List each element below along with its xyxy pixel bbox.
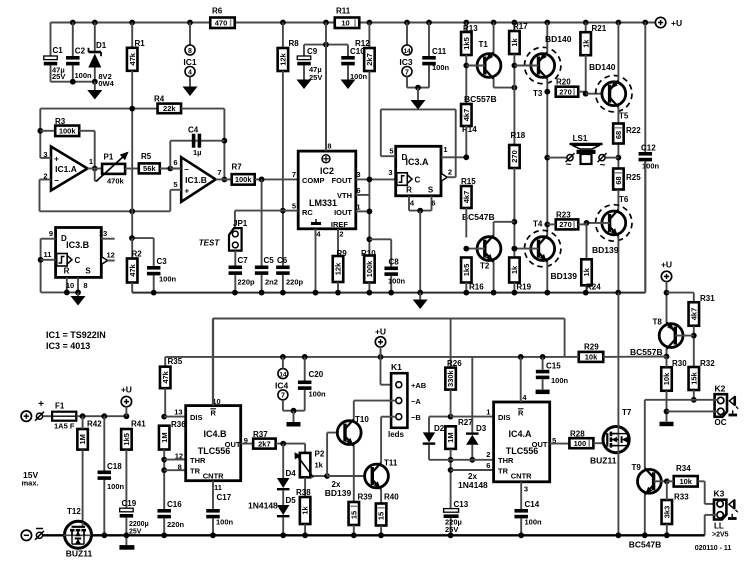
svg-text:C6: C6 xyxy=(277,256,288,265)
svg-text:S: S xyxy=(85,267,91,276)
svg-text:1: 1 xyxy=(443,145,447,154)
svg-text:R15: R15 xyxy=(461,177,476,186)
svg-text:1k: 1k xyxy=(581,39,590,48)
svg-text:C13: C13 xyxy=(454,500,469,509)
svg-text:R11: R11 xyxy=(336,7,351,16)
svg-text:+: + xyxy=(184,187,189,196)
svg-text:R25: R25 xyxy=(626,173,641,182)
svg-text:THR: THR xyxy=(190,456,206,465)
svg-text:TR: TR xyxy=(498,467,509,476)
svg-text:5: 5 xyxy=(173,180,177,189)
svg-text:S: S xyxy=(428,185,434,194)
svg-text:R10: R10 xyxy=(361,249,376,258)
svg-text:5: 5 xyxy=(389,147,393,156)
svg-text:P1: P1 xyxy=(104,153,114,162)
svg-text:FOUT: FOUT xyxy=(332,176,353,185)
svg-text:OUT: OUT xyxy=(225,440,241,449)
svg-text:+U: +U xyxy=(375,327,386,337)
svg-text:T8: T8 xyxy=(653,318,663,327)
svg-text:IC4.B: IC4.B xyxy=(203,429,227,439)
svg-text:470: 470 xyxy=(215,19,228,28)
svg-text:R34: R34 xyxy=(676,464,691,473)
svg-text:3: 3 xyxy=(43,150,47,159)
svg-text:TEST: TEST xyxy=(199,239,221,248)
svg-text:+: + xyxy=(54,155,59,164)
svg-text:1k: 1k xyxy=(315,461,324,470)
svg-text:C: C xyxy=(415,175,421,184)
svg-text:IC3.B: IC3.B xyxy=(66,240,90,250)
svg-text:12: 12 xyxy=(175,452,183,461)
svg-text:R23: R23 xyxy=(556,211,571,220)
svg-text:TR: TR xyxy=(190,467,201,476)
svg-text:R9: R9 xyxy=(337,249,348,258)
svg-text:8: 8 xyxy=(327,142,331,151)
svg-text:BD139: BD139 xyxy=(325,488,352,498)
svg-text:leds: leds xyxy=(388,430,405,439)
svg-text:7: 7 xyxy=(405,69,409,76)
svg-text:10k: 10k xyxy=(585,353,598,362)
svg-text:R5: R5 xyxy=(141,152,152,161)
svg-text:R2: R2 xyxy=(132,250,143,259)
svg-text:12: 12 xyxy=(107,251,115,260)
svg-text:BUZ11: BUZ11 xyxy=(66,549,93,559)
svg-text:25V: 25V xyxy=(445,525,458,534)
svg-text:P2: P2 xyxy=(315,450,325,459)
svg-text:R30: R30 xyxy=(672,359,687,368)
svg-text:6: 6 xyxy=(173,158,177,167)
svg-text:8: 8 xyxy=(188,48,192,55)
svg-text:CNTR: CNTR xyxy=(203,472,224,481)
svg-text:8: 8 xyxy=(83,281,87,290)
svg-text:~: ~ xyxy=(600,160,606,171)
svg-text:BC557B: BC557B xyxy=(630,347,663,357)
svg-text:4k7: 4k7 xyxy=(462,109,471,122)
svg-text:1N4148: 1N4148 xyxy=(458,480,488,490)
svg-text:270: 270 xyxy=(559,220,572,229)
svg-text:2200µ: 2200µ xyxy=(129,521,149,528)
svg-text:4k7: 4k7 xyxy=(689,308,698,321)
svg-text:68: 68 xyxy=(614,131,623,139)
svg-text:R: R xyxy=(406,185,412,194)
svg-text:DIS: DIS xyxy=(190,413,203,422)
svg-text:IC2: IC2 xyxy=(320,166,334,176)
svg-text:T7: T7 xyxy=(622,408,632,417)
svg-text:T11: T11 xyxy=(384,459,398,468)
svg-text:0W4: 0W4 xyxy=(98,79,114,88)
svg-text:2: 2 xyxy=(486,450,490,459)
svg-text:COMP: COMP xyxy=(302,176,325,185)
svg-text:270: 270 xyxy=(510,150,519,163)
svg-text:R35: R35 xyxy=(168,357,183,366)
svg-text:T10: T10 xyxy=(355,415,369,424)
svg-text:100k: 100k xyxy=(365,260,374,278)
svg-text:R33: R33 xyxy=(674,493,689,502)
svg-text:C1: C1 xyxy=(53,46,64,55)
svg-text:15: 15 xyxy=(349,511,358,519)
svg-text:R22: R22 xyxy=(626,126,641,135)
svg-text:22k: 22k xyxy=(163,104,176,113)
svg-text:T6: T6 xyxy=(619,195,629,204)
svg-text:C8: C8 xyxy=(389,258,400,267)
svg-text:DIS: DIS xyxy=(498,413,511,422)
svg-text:CNTR: CNTR xyxy=(511,472,532,481)
svg-text:8: 8 xyxy=(178,463,182,472)
svg-text:R32: R32 xyxy=(700,359,715,368)
svg-text:C19: C19 xyxy=(122,499,137,508)
svg-text:R36: R36 xyxy=(171,420,186,429)
svg-text:C14: C14 xyxy=(525,500,540,509)
svg-text:R31: R31 xyxy=(700,294,715,303)
svg-text:T2: T2 xyxy=(480,262,490,271)
svg-text:270: 270 xyxy=(559,88,572,97)
svg-text:OC: OC xyxy=(715,418,727,427)
svg-text:9: 9 xyxy=(49,229,53,238)
svg-text:R16: R16 xyxy=(469,283,484,292)
svg-text:100n: 100n xyxy=(216,518,234,527)
svg-text:220p: 220p xyxy=(286,278,304,287)
svg-text:100n: 100n xyxy=(159,275,177,284)
svg-text:100n: 100n xyxy=(107,482,125,491)
svg-text:BC557B: BC557B xyxy=(464,94,497,104)
svg-text:7: 7 xyxy=(292,170,296,179)
svg-text:1N4148: 1N4148 xyxy=(248,501,278,511)
svg-text:100n: 100n xyxy=(388,277,406,286)
svg-text:BD140: BD140 xyxy=(589,62,616,72)
svg-text:IC1.A: IC1.A xyxy=(55,164,77,174)
svg-text:T5: T5 xyxy=(619,112,629,121)
svg-text:IC1 = TS922IN: IC1 = TS922IN xyxy=(46,330,106,340)
svg-text:25V: 25V xyxy=(52,72,65,81)
svg-text:C18: C18 xyxy=(107,462,122,471)
svg-text:~: ~ xyxy=(566,160,572,171)
svg-text:−: − xyxy=(54,176,59,185)
svg-text:THR: THR xyxy=(498,456,514,465)
svg-text:VTH: VTH xyxy=(337,191,352,200)
svg-text:2k7: 2k7 xyxy=(258,439,271,448)
svg-text:6: 6 xyxy=(431,199,435,208)
svg-text:12k: 12k xyxy=(334,262,343,275)
svg-text:330k: 330k xyxy=(446,369,455,387)
svg-text:10k: 10k xyxy=(662,372,671,385)
svg-text:C3: C3 xyxy=(157,257,168,266)
svg-text:R8: R8 xyxy=(289,39,300,48)
svg-text:56k: 56k xyxy=(143,164,156,173)
svg-text:BUZ11: BUZ11 xyxy=(590,456,617,466)
svg-text:12k: 12k xyxy=(279,52,288,65)
svg-text:2k7: 2k7 xyxy=(365,53,374,66)
svg-text:+: + xyxy=(38,399,44,410)
svg-text:100n: 100n xyxy=(75,71,93,80)
svg-text:D1: D1 xyxy=(96,41,107,50)
svg-text:2: 2 xyxy=(448,168,452,177)
svg-text:R40: R40 xyxy=(384,493,399,502)
svg-text:3: 3 xyxy=(356,170,360,179)
svg-text:R17: R17 xyxy=(513,22,528,31)
svg-text:R28: R28 xyxy=(570,430,585,439)
svg-text:15: 15 xyxy=(377,512,386,520)
svg-text:1k: 1k xyxy=(510,38,519,47)
svg-text:1k5: 1k5 xyxy=(462,264,471,277)
svg-text:1A5 F: 1A5 F xyxy=(54,422,75,431)
svg-text:+U: +U xyxy=(671,18,682,28)
svg-text:7: 7 xyxy=(217,168,221,177)
svg-text:1M: 1M xyxy=(446,432,455,442)
svg-text:R19: R19 xyxy=(516,283,531,292)
svg-text:C9: C9 xyxy=(307,47,318,56)
svg-text:IREF: IREF xyxy=(331,220,349,229)
svg-text:JP1: JP1 xyxy=(233,219,248,228)
svg-text:R24: R24 xyxy=(586,283,601,292)
svg-text:T12: T12 xyxy=(67,507,81,516)
svg-text:2: 2 xyxy=(339,230,343,239)
svg-text:020110 - 11: 020110 - 11 xyxy=(695,545,732,552)
svg-text:1k: 1k xyxy=(582,267,591,276)
svg-text:R42: R42 xyxy=(87,420,102,429)
svg-text:C5: C5 xyxy=(264,256,275,265)
svg-text:7: 7 xyxy=(281,393,285,400)
svg-text:IC1.B: IC1.B xyxy=(185,175,207,185)
svg-text:R6: R6 xyxy=(212,7,223,16)
svg-text:R26: R26 xyxy=(447,359,462,368)
svg-text:220p: 220p xyxy=(238,278,256,287)
svg-text:LM331: LM331 xyxy=(309,198,337,208)
svg-text:C4: C4 xyxy=(188,126,199,135)
svg-text:>2V5: >2V5 xyxy=(712,532,729,539)
svg-text:100: 100 xyxy=(574,439,587,448)
svg-text:13: 13 xyxy=(174,408,182,417)
svg-text:15k: 15k xyxy=(689,371,698,384)
svg-text:C12: C12 xyxy=(641,144,656,153)
svg-text:R14: R14 xyxy=(462,125,477,134)
svg-text:1k: 1k xyxy=(301,506,310,515)
svg-text:1: 1 xyxy=(356,203,360,212)
svg-text:IC4.A: IC4.A xyxy=(508,429,532,439)
svg-text:D3: D3 xyxy=(476,424,487,433)
svg-text:100k: 100k xyxy=(235,175,253,184)
svg-text:47k: 47k xyxy=(128,263,137,276)
svg-text:R: R xyxy=(64,267,70,276)
svg-text:3: 3 xyxy=(524,485,528,494)
svg-text:R20: R20 xyxy=(556,78,571,87)
svg-text:C15: C15 xyxy=(546,362,561,371)
svg-text:IC4: IC4 xyxy=(275,381,289,391)
svg-text:C7: C7 xyxy=(238,256,249,265)
svg-text:D2: D2 xyxy=(434,424,445,433)
svg-text:C: C xyxy=(75,256,81,265)
svg-text:11: 11 xyxy=(214,483,222,492)
svg-text:IC3: IC3 xyxy=(399,57,413,67)
svg-text:T9: T9 xyxy=(632,463,642,472)
svg-text:100n: 100n xyxy=(432,63,450,72)
svg-text:100n: 100n xyxy=(350,72,368,81)
svg-text:R: R xyxy=(518,409,524,418)
svg-text:−: − xyxy=(184,165,189,174)
svg-text:D5: D5 xyxy=(286,496,297,505)
svg-text:100n: 100n xyxy=(309,390,327,399)
svg-text:1: 1 xyxy=(89,157,93,166)
svg-text:R39: R39 xyxy=(358,493,373,502)
svg-text:OUT: OUT xyxy=(532,440,548,449)
svg-text:4k7: 4k7 xyxy=(462,191,471,204)
svg-text:T4: T4 xyxy=(533,220,543,229)
svg-text:R3: R3 xyxy=(55,117,66,126)
svg-text:+U: +U xyxy=(661,260,672,270)
svg-text:IC1: IC1 xyxy=(183,57,197,67)
svg-text:6: 6 xyxy=(356,186,360,195)
svg-text:R4: R4 xyxy=(154,95,165,104)
svg-text:10k: 10k xyxy=(679,477,692,486)
svg-text:T1: T1 xyxy=(479,40,489,49)
svg-text:K3: K3 xyxy=(714,489,725,499)
svg-text:11: 11 xyxy=(44,250,52,259)
svg-text:R12: R12 xyxy=(355,39,370,48)
svg-text:5: 5 xyxy=(292,202,296,211)
svg-text:BD140: BD140 xyxy=(545,34,572,44)
svg-text:LS1: LS1 xyxy=(573,134,588,143)
svg-text:+AB: +AB xyxy=(411,381,427,390)
svg-text:C11: C11 xyxy=(432,47,447,56)
svg-text:LL: LL xyxy=(714,522,724,531)
svg-text:47k: 47k xyxy=(128,52,137,65)
svg-text:47k: 47k xyxy=(161,370,170,383)
svg-text:1k5: 1k5 xyxy=(122,433,131,446)
svg-text:R21: R21 xyxy=(592,24,607,33)
svg-text:1µ: 1µ xyxy=(193,148,202,157)
svg-text:R7: R7 xyxy=(232,163,243,172)
svg-text:1k5: 1k5 xyxy=(462,37,471,50)
svg-text:14: 14 xyxy=(403,48,411,55)
svg-text:−B: −B xyxy=(411,413,421,422)
svg-text:25V: 25V xyxy=(309,73,322,82)
svg-text:2n2: 2n2 xyxy=(265,278,278,287)
svg-text:C16: C16 xyxy=(167,500,182,509)
svg-text:K2: K2 xyxy=(715,383,726,393)
svg-text:R: R xyxy=(210,409,216,418)
svg-text:100n: 100n xyxy=(525,518,543,527)
svg-text:F1: F1 xyxy=(55,402,65,411)
svg-text:3: 3 xyxy=(388,168,392,177)
svg-text:IC3 = 4013: IC3 = 4013 xyxy=(46,341,90,351)
svg-text:C20: C20 xyxy=(309,370,324,379)
svg-text:BC547B: BC547B xyxy=(629,540,662,550)
svg-text:IOUT: IOUT xyxy=(334,208,352,217)
svg-text:10: 10 xyxy=(66,281,74,290)
svg-text:BD139: BD139 xyxy=(592,245,619,255)
svg-text:max.: max. xyxy=(22,479,39,488)
svg-text:220n: 220n xyxy=(167,520,185,529)
svg-text:14: 14 xyxy=(279,371,287,378)
svg-text:R13: R13 xyxy=(463,24,478,33)
svg-text:RC: RC xyxy=(302,208,313,217)
svg-text:+U: +U xyxy=(121,385,132,395)
svg-text:13: 13 xyxy=(99,229,107,238)
svg-text:1k: 1k xyxy=(510,265,519,274)
svg-text:R38: R38 xyxy=(296,488,311,497)
svg-text:−A: −A xyxy=(411,397,421,406)
svg-text:68: 68 xyxy=(614,176,623,184)
svg-text:R1: R1 xyxy=(135,39,146,48)
svg-text:R29: R29 xyxy=(584,343,599,352)
svg-text:D: D xyxy=(61,234,67,243)
svg-text:100n: 100n xyxy=(551,376,569,385)
svg-text:IC3.A: IC3.A xyxy=(405,157,429,167)
svg-text:4: 4 xyxy=(188,69,192,76)
svg-text:T3: T3 xyxy=(533,89,543,98)
svg-text:2: 2 xyxy=(43,172,47,181)
svg-text:C2: C2 xyxy=(75,47,86,56)
svg-text:3k3: 3k3 xyxy=(662,506,671,519)
svg-text:R41: R41 xyxy=(131,420,146,429)
svg-text:D4: D4 xyxy=(286,469,297,478)
svg-text:6: 6 xyxy=(486,461,490,470)
svg-text:C17: C17 xyxy=(217,493,232,502)
svg-text:10: 10 xyxy=(341,19,349,28)
svg-text:R37: R37 xyxy=(253,430,268,439)
svg-text:D: D xyxy=(402,153,408,162)
svg-text:K1: K1 xyxy=(391,362,402,372)
svg-text:100k: 100k xyxy=(59,127,77,136)
svg-text:1M: 1M xyxy=(78,434,87,444)
svg-text:R27: R27 xyxy=(458,418,473,427)
svg-text:1M: 1M xyxy=(160,432,169,442)
svg-text:R18: R18 xyxy=(511,131,526,140)
svg-text:1: 1 xyxy=(486,408,490,417)
svg-text:BD139: BD139 xyxy=(551,271,578,281)
svg-text:470k: 470k xyxy=(107,177,125,186)
